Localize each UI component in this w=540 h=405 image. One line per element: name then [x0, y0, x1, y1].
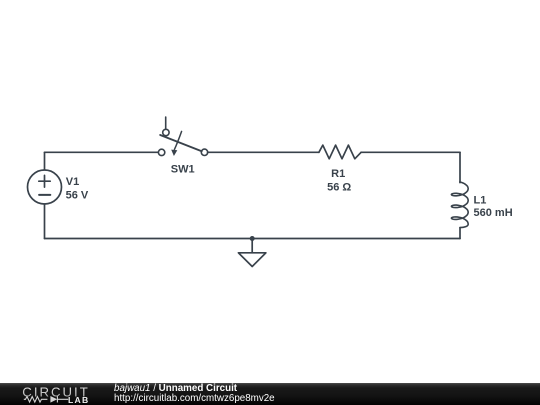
svg-text:L1: L1: [474, 194, 487, 206]
logo diode: [57, 396, 68, 402]
wire left rail upper: [44, 152, 46, 170]
ground: [238, 239, 266, 267]
voltage source V1: [28, 170, 62, 204]
footer bar: [0, 383, 540, 405]
CircuitLab logo: [0, 383, 110, 405]
svg-text:56 V: 56 V: [66, 189, 89, 201]
switch SW1: [158, 117, 207, 156]
footer credit text: [114, 383, 275, 404]
logo resistor squiggle: [24, 397, 48, 403]
svg-text:56 Ω: 56 Ω: [327, 182, 351, 194]
wire switch to resistor: [208, 151, 319, 153]
wire resistor to corner: [361, 151, 460, 153]
svg-text:LAB: LAB: [68, 395, 90, 405]
node junction at ground tap: [250, 236, 255, 241]
wire left rail lower: [44, 204, 46, 239]
wire bottom rail: [45, 238, 461, 240]
svg-text:560 mH: 560 mH: [474, 207, 513, 219]
svg-text:SW1: SW1: [171, 163, 195, 175]
resistor R1: [319, 145, 361, 159]
svg-text:V1: V1: [66, 176, 79, 188]
wire right rail lower: [459, 228, 461, 239]
wire top-left segment: [45, 151, 159, 153]
inductor L1: [451, 182, 468, 228]
wire right rail upper: [459, 152, 461, 182]
svg-text:R1: R1: [331, 168, 345, 180]
